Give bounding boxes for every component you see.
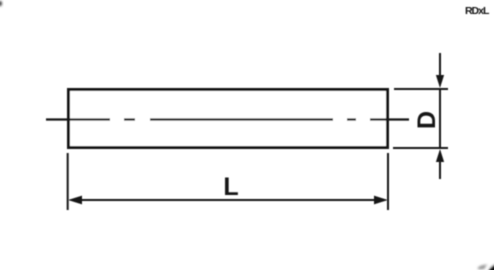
dimension D: top arrowhead (points down) [436, 75, 444, 88]
dimension D: lower leader line [439, 161, 441, 179]
dimension L: right extension line [387, 153, 389, 210]
dimension D: top extension line [394, 88, 448, 90]
dimension L: right arrowhead (points right) [374, 196, 388, 205]
dimension L: dimension line [80, 199, 376, 201]
dimension D: upper leader line [439, 53, 441, 76]
svg-text:RDxL: RDxL [465, 5, 490, 17]
dimension D: bottom extension line [393, 147, 448, 149]
dimension L: left extension line [67, 153, 69, 210]
part outline: round bar body [69, 90, 388, 148]
corner artifact top-left [0, 1, 2, 6]
svg-text:L: L [223, 173, 238, 201]
centerline (axis of the bar) [46, 118, 409, 120]
svg-text:D: D [413, 111, 441, 129]
dimension L: left arrowhead (points left) [68, 196, 82, 205]
dimension D: line between extension lines [439, 89, 441, 148]
dimension D: bottom arrowhead (points up) [436, 149, 444, 162]
corner artifact bottom-right (logo fragment) [477, 261, 494, 270]
